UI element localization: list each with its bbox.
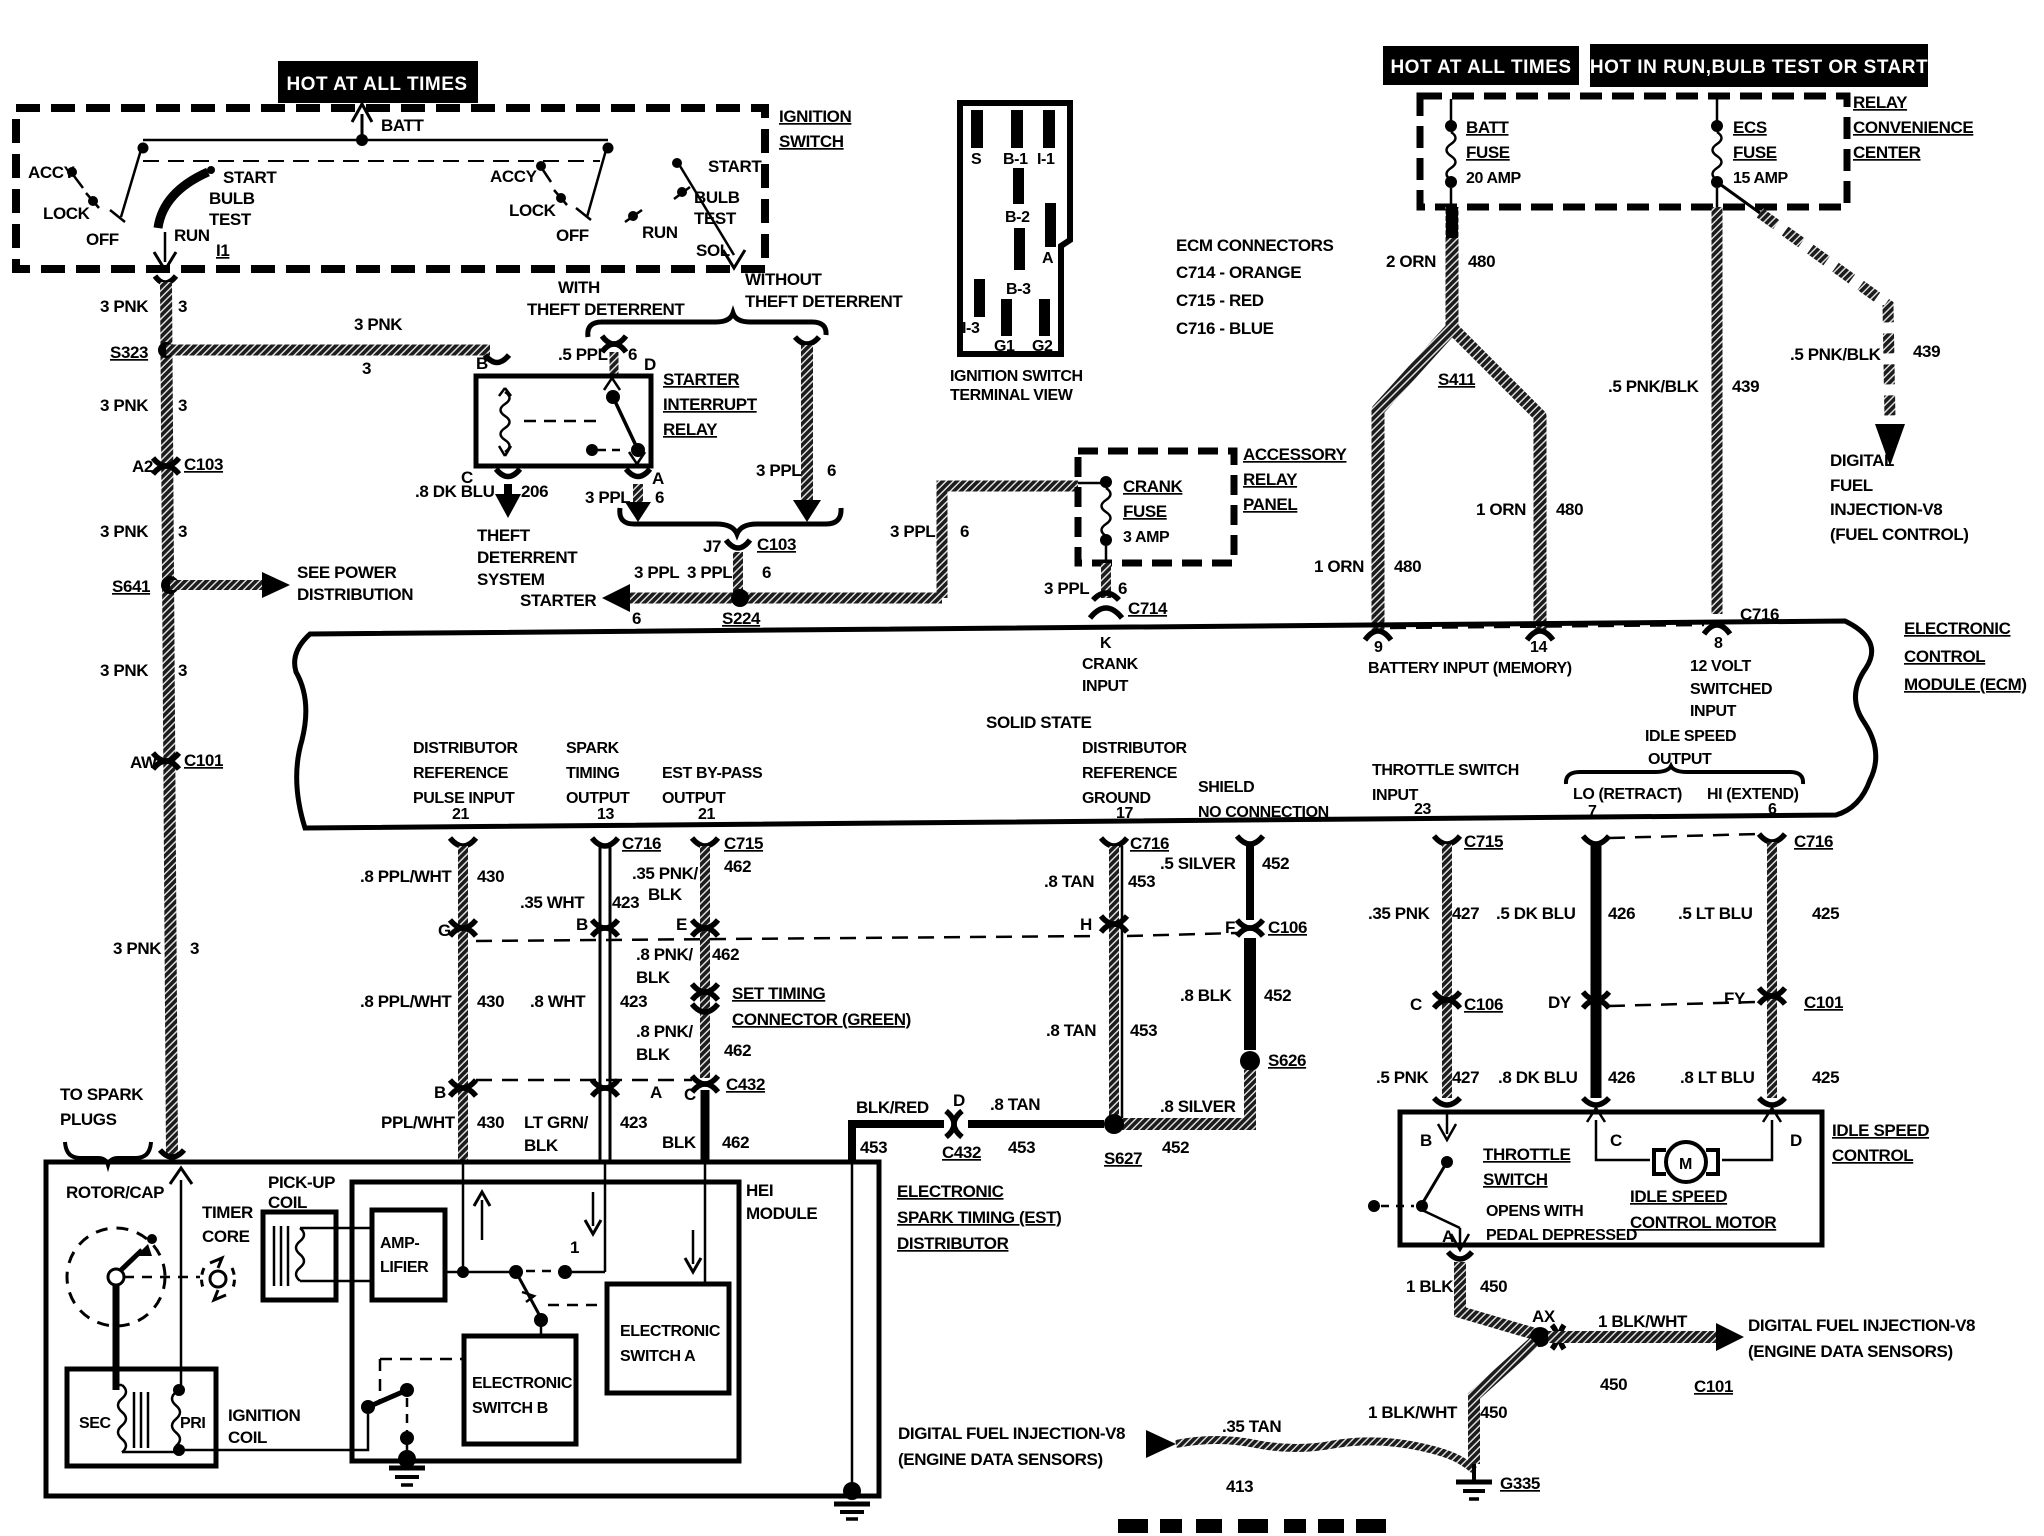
svg-text:S224: S224 <box>722 609 761 628</box>
svg-text:TO SPARK: TO SPARK <box>60 1085 144 1104</box>
connector H <box>1080 915 1127 934</box>
wire label .35 PNK 427 <box>1368 904 1479 923</box>
wire label .5 LT BLU 425 <box>1678 904 1839 923</box>
svg-text:EST BY-PASS: EST BY-PASS <box>662 765 763 782</box>
svg-text:TERMINAL VIEW: TERMINAL VIEW <box>950 387 1074 404</box>
svg-text:3 AMP: 3 AMP <box>1123 529 1170 546</box>
crank fuse <box>1078 476 1184 563</box>
down arrow right in HEI <box>685 1230 701 1272</box>
svg-text:C716: C716 <box>1130 834 1169 853</box>
svg-text:BATT: BATT <box>381 116 424 135</box>
svg-text:SWITCH: SWITCH <box>1483 1170 1548 1189</box>
svg-text:CENTER: CENTER <box>1853 143 1921 162</box>
wire 1 ORN 480 left leg labels <box>1314 557 1421 576</box>
ignition coil box <box>67 1369 216 1466</box>
wire BLK/RED inside distributor to ground <box>851 1162 854 1494</box>
svg-text:.8 PNK/: .8 PNK/ <box>636 1022 693 1041</box>
svg-text:INPUT: INPUT <box>1372 787 1419 804</box>
svg-text:.35 PNK/: .35 PNK/ <box>632 864 698 883</box>
pin 21 EST BY-PASS OUTPUT <box>662 765 763 823</box>
right OFF contact <box>556 208 591 245</box>
ignition switch title <box>779 107 851 151</box>
svg-text:DISTRIBUTOR: DISTRIBUTOR <box>897 1234 1009 1253</box>
svg-text:THROTTLE: THROTTLE <box>1483 1145 1571 1164</box>
svg-text:G2: G2 <box>1032 338 1053 355</box>
pin 23 THROTTLE SWITCH INPUT <box>1372 762 1519 818</box>
svg-text:3: 3 <box>178 297 187 316</box>
svg-text:BLK/RED: BLK/RED <box>856 1098 929 1117</box>
footer plate marks <box>1118 1519 1386 1533</box>
splice AX C101 <box>1530 1307 1733 1396</box>
label bar HOT AT ALL TIMES (left) <box>278 61 478 103</box>
svg-text:CONNECTOR (GREEN): CONNECTOR (GREEN) <box>732 1010 911 1029</box>
svg-text:C432: C432 <box>942 1143 981 1162</box>
svg-text:J7: J7 <box>703 537 721 556</box>
svg-text:IDLE SPEED: IDLE SPEED <box>1832 1121 1929 1140</box>
svg-text:C: C <box>684 1085 696 1104</box>
pivot switch lower left <box>361 1383 414 1458</box>
svg-text:3 PNK: 3 PNK <box>113 939 162 958</box>
svg-text:OFF: OFF <box>556 226 589 245</box>
svg-text:.35 PNK: .35 PNK <box>1368 904 1431 923</box>
svg-text:C716 - BLUE: C716 - BLUE <box>1176 319 1274 338</box>
ECM module outline <box>295 621 1876 828</box>
splice S411 <box>1378 328 1540 632</box>
left LOCK contact <box>43 193 99 223</box>
svg-text:.8 BLK: .8 BLK <box>1180 986 1233 1005</box>
idle speed motor pin D entry <box>1722 1098 1802 1160</box>
svg-text:.5 PNK/BLK: .5 PNK/BLK <box>1790 345 1882 364</box>
svg-text:1: 1 <box>570 1238 579 1257</box>
wire .8 TAN from S627 to D <box>968 1095 1104 1124</box>
connector .5 PPL 6 to relay D <box>558 336 656 376</box>
svg-text:IGNITION: IGNITION <box>228 1406 300 1425</box>
connector D C432 <box>942 1091 981 1162</box>
svg-text:B-1: B-1 <box>1003 151 1028 168</box>
set timing connector (green) <box>692 984 911 1029</box>
svg-text:C101: C101 <box>184 751 223 770</box>
svg-text:IGNITION SWITCH: IGNITION SWITCH <box>950 368 1083 385</box>
wire .35 TAN 413 from engine data sensors <box>898 1417 1474 1496</box>
svg-text:C103: C103 <box>184 455 223 474</box>
svg-text:CONTROL: CONTROL <box>1832 1146 1913 1165</box>
pin 7 connector below ECM <box>1583 836 1609 844</box>
relay coil <box>499 388 511 456</box>
wire label PPL/WHT 430 <box>381 1113 504 1132</box>
left RUN output arrow <box>154 232 176 270</box>
svg-text:DETERRENT: DETERRENT <box>477 548 578 567</box>
svg-text:439: 439 <box>1732 377 1759 396</box>
svg-text:C716: C716 <box>622 834 661 853</box>
svg-text:FUSE: FUSE <box>1733 143 1777 162</box>
connector C716 pin 8 <box>1704 605 1779 634</box>
svg-text:BATT: BATT <box>1466 118 1509 137</box>
label TIMER CORE <box>202 1203 253 1246</box>
amplifier box <box>372 1210 445 1300</box>
svg-text:DISTRIBUTOR: DISTRIBUTOR <box>413 740 518 757</box>
svg-text:BLK: BLK <box>662 1133 697 1152</box>
svg-text:ACCY: ACCY <box>490 167 538 186</box>
svg-text:3 PNK: 3 PNK <box>100 396 149 415</box>
svg-text:S626: S626 <box>1268 1051 1306 1070</box>
svg-text:3: 3 <box>178 661 187 680</box>
svg-text:3: 3 <box>178 396 187 415</box>
pin SHIELD connector below ECM <box>1237 836 1263 844</box>
left OFF contact <box>86 210 125 249</box>
svg-text:G335: G335 <box>1500 1474 1540 1493</box>
svg-text:SWITCH: SWITCH <box>779 132 844 151</box>
svg-text:450: 450 <box>1600 1375 1627 1394</box>
svg-text:COIL: COIL <box>228 1428 267 1447</box>
wire 3 PPL 6 without theft deterrent <box>756 337 836 522</box>
svg-text:OUTPUT: OUTPUT <box>566 790 630 807</box>
throttle switch contacts <box>1368 1156 1469 1250</box>
svg-text:7: 7 <box>1588 803 1597 820</box>
svg-text:C716: C716 <box>1794 832 1833 851</box>
svg-text:2 ORN: 2 ORN <box>1386 252 1436 271</box>
pick-up coil to amplifier wires <box>336 1228 372 1281</box>
svg-text:B: B <box>1420 1131 1432 1150</box>
label WITH THEFT DETERRENT <box>527 278 685 319</box>
svg-text:.8 SILVER: .8 SILVER <box>1160 1097 1236 1116</box>
wire 430 PPL/WHT distributor reference <box>458 846 468 1162</box>
svg-text:OUTPUT: OUTPUT <box>662 790 726 807</box>
svg-text:C715 - RED: C715 - RED <box>1176 291 1264 310</box>
electronic switch B box <box>464 1336 576 1444</box>
wire label .8 PPL/WHT 430 <box>360 867 504 886</box>
svg-text:CONTROL MOTOR: CONTROL MOTOR <box>1630 1213 1776 1232</box>
svg-text:C106: C106 <box>1464 995 1503 1014</box>
node DIGITAL FUEL INJECTION-V8 (ENGINE DATA SENSORS) right <box>1748 1316 1975 1361</box>
svg-text:MODULE (ECM): MODULE (ECM) <box>1904 675 2027 694</box>
svg-text:C714 - ORANGE: C714 - ORANGE <box>1176 263 1301 282</box>
splice S627 <box>1008 1114 1142 1168</box>
svg-text:.5 PNK: .5 PNK <box>1376 1068 1430 1087</box>
svg-text:START: START <box>223 168 277 187</box>
svg-text:C103: C103 <box>757 535 796 554</box>
svg-text:HOT AT ALL TIMES: HOT AT ALL TIMES <box>1390 57 1571 78</box>
svg-text:ECS: ECS <box>1733 118 1767 137</box>
svg-text:AW: AW <box>130 753 158 772</box>
EST distributor outer box <box>46 1162 879 1496</box>
svg-text:20 AMP: 20 AMP <box>1466 170 1522 187</box>
node TO SPARK PLUGS <box>60 1085 151 1165</box>
svg-text:480: 480 <box>1556 500 1583 519</box>
svg-text:1 ORN: 1 ORN <box>1476 500 1526 519</box>
svg-text:D: D <box>1790 1131 1802 1150</box>
svg-text:452: 452 <box>1162 1138 1189 1157</box>
connector C715 est by-pass <box>724 834 763 876</box>
svg-text:AX: AX <box>1532 1307 1556 1326</box>
pin SHIELD NO CONNECTION <box>1198 779 1329 821</box>
svg-text:6: 6 <box>628 345 637 364</box>
wire .5 PNK/BLK 439 from ECS fuse <box>1608 207 1759 614</box>
throttle switch title <box>1483 1145 1637 1244</box>
ignition switch bus wire <box>143 139 608 142</box>
svg-text:TIMER: TIMER <box>202 1203 253 1222</box>
svg-text:ROTOR/CAP: ROTOR/CAP <box>66 1183 164 1202</box>
brace from SOL to theft deterrent paths <box>588 313 826 337</box>
wire pivot to ignition coil <box>216 1414 368 1450</box>
ground G335 <box>1456 1464 1540 1499</box>
svg-text:.8 LT BLU: .8 LT BLU <box>1680 1068 1755 1087</box>
svg-text:SWITCHED: SWITCHED <box>1690 681 1772 698</box>
idle speed control motor <box>1654 1142 1718 1182</box>
svg-text:BULB: BULB <box>694 188 740 207</box>
svg-text:TIMING: TIMING <box>566 765 620 782</box>
pins 7 6 IDLE SPEED OUTPUT <box>1566 728 1803 820</box>
rotor shaft to ignition coil <box>113 1285 120 1390</box>
svg-text:PRI: PRI <box>180 1415 205 1432</box>
svg-text:BLK: BLK <box>636 968 671 987</box>
pin 23 connector below ECM <box>1434 832 1503 851</box>
throttle switch pin B entry <box>1420 1098 1460 1150</box>
svg-text:CRANK: CRANK <box>1082 656 1139 673</box>
wire label 3 PNK 3 <box>100 297 187 316</box>
svg-text:WITHOUT: WITHOUT <box>745 270 823 289</box>
wire C into HEI <box>704 1162 707 1284</box>
splice S224 with starter feed line <box>520 584 942 628</box>
svg-text:ACCY: ACCY <box>28 163 76 182</box>
svg-text:SOLID STATE: SOLID STATE <box>986 713 1092 732</box>
svg-text:PEDAL DEPRESSED: PEDAL DEPRESSED <box>1486 1227 1637 1244</box>
connector B <box>434 1080 476 1102</box>
timer core symbol <box>202 1258 235 1300</box>
svg-text:C432: C432 <box>726 1075 765 1094</box>
svg-text:START: START <box>708 157 762 176</box>
label PICK-UP COIL <box>268 1173 335 1212</box>
relay B pin connector <box>485 355 509 363</box>
svg-text:439: 439 <box>1913 342 1940 361</box>
wire 453 TAN distributor reference ground <box>1114 846 1122 1124</box>
svg-text:IGNITION: IGNITION <box>779 107 851 126</box>
svg-text:C: C <box>1610 1131 1622 1150</box>
svg-text:3 PNK: 3 PNK <box>354 315 403 334</box>
svg-text:426: 426 <box>1608 904 1635 923</box>
svg-text:H: H <box>1080 915 1092 934</box>
svg-text:3 PPL: 3 PPL <box>890 522 935 541</box>
pin 8 12 VOLT SWITCHED INPUT <box>1690 635 1772 720</box>
svg-text:IDLE SPEED: IDLE SPEED <box>1630 1187 1727 1206</box>
svg-text:PPL/WHT: PPL/WHT <box>381 1113 456 1132</box>
svg-text:3 PNK: 3 PNK <box>100 297 149 316</box>
svg-text:.8 PPL/WHT: .8 PPL/WHT <box>360 867 452 886</box>
wire .5 PNK/BLK 439 diagonal branch <box>1717 182 1940 466</box>
svg-text:PANEL: PANEL <box>1243 495 1297 514</box>
svg-text:DIGITAL FUEL INJECTION-V8: DIGITAL FUEL INJECTION-V8 <box>1748 1316 1975 1335</box>
svg-text:(ENGINE DATA SENSORS): (ENGINE DATA SENSORS) <box>1748 1342 1953 1361</box>
electronic switch arm <box>516 1272 607 1336</box>
svg-text:DIGITAL FUEL INJECTION-V8: DIGITAL FUEL INJECTION-V8 <box>898 1424 1125 1443</box>
pin 6 connector below ECM <box>1759 832 1833 851</box>
svg-text:480: 480 <box>1394 557 1421 576</box>
svg-text:6: 6 <box>960 522 969 541</box>
connector C C106 <box>1410 992 1503 1014</box>
svg-text:B: B <box>434 1083 446 1102</box>
svg-text:SYSTEM: SYSTEM <box>477 570 545 589</box>
svg-text:BLK: BLK <box>524 1136 559 1155</box>
svg-text:6: 6 <box>1768 801 1777 818</box>
svg-text:423: 423 <box>620 992 647 1011</box>
svg-text:PICK-UP: PICK-UP <box>268 1173 335 1192</box>
svg-text:WITH: WITH <box>558 278 600 297</box>
svg-text:CORE: CORE <box>202 1227 250 1246</box>
svg-text:3 PNK: 3 PNK <box>100 661 149 680</box>
connector E <box>676 915 718 936</box>
svg-text:DISTRIBUTION: DISTRIBUTION <box>297 585 413 604</box>
svg-text:DY: DY <box>1548 993 1572 1012</box>
svg-text:3 PPL: 3 PPL <box>1044 579 1089 598</box>
svg-text:A: A <box>1042 250 1054 267</box>
svg-text:CONVENIENCE: CONVENIENCE <box>1853 118 1973 137</box>
dashed net on ECM top edge pins 9-14-8 <box>1390 625 1704 628</box>
svg-text:FUSE: FUSE <box>1466 143 1510 162</box>
wire 3 PPL 6 to C714 <box>1044 563 1127 598</box>
svg-text:3 PPL: 3 PPL <box>687 563 732 582</box>
svg-text:427: 427 <box>1452 1068 1479 1087</box>
left START arc contact <box>158 166 277 260</box>
svg-text:(ENGINE DATA SENSORS): (ENGINE DATA SENSORS) <box>898 1450 1103 1469</box>
svg-text:13: 13 <box>597 806 614 823</box>
relay convenience center title <box>1853 93 1973 162</box>
svg-text:OFF: OFF <box>86 230 119 249</box>
wire label 3 PNK 3 <box>100 396 187 415</box>
svg-text:THEFT DETERRENT: THEFT DETERRENT <box>745 292 903 311</box>
connector A2 C103 <box>132 455 223 476</box>
svg-text:1 BLK/WHT: 1 BLK/WHT <box>1598 1312 1688 1331</box>
svg-text:RUN: RUN <box>174 226 210 245</box>
svg-text:HI (EXTEND): HI (EXTEND) <box>1707 786 1799 803</box>
wire BLK 462 to distributor <box>662 1090 749 1162</box>
dashed line G to H <box>476 936 1100 941</box>
svg-text:.8 TAN: .8 TAN <box>1044 872 1094 891</box>
wire 1 BLK/WHT 450 to engine data sensors <box>1548 1312 1744 1351</box>
wire label .8 PNK/BLK 462 <box>636 1022 751 1064</box>
label HEI MODULE <box>746 1181 817 1223</box>
relay switch <box>524 378 645 464</box>
svg-text:462: 462 <box>712 945 739 964</box>
svg-text:S411: S411 <box>1438 370 1475 389</box>
svg-text:I1: I1 <box>216 241 229 260</box>
connector A spark timing <box>592 1080 662 1102</box>
wire label .8 PPL/WHT 430 <box>360 992 504 1011</box>
svg-text:SWITCH A: SWITCH A <box>620 1348 696 1365</box>
svg-text:6: 6 <box>827 461 836 480</box>
connector C714 pin K <box>1090 593 1168 618</box>
svg-text:THEFT DETERRENT: THEFT DETERRENT <box>527 300 685 319</box>
svg-text:THEFT: THEFT <box>477 526 531 545</box>
wire label 3 PNK 3 <box>100 522 187 541</box>
svg-text:INPUT: INPUT <box>1690 703 1737 720</box>
wire label .8 TAN 453 <box>1046 1021 1157 1040</box>
connector AW C101 <box>130 751 223 772</box>
svg-text:450: 450 <box>1480 1403 1507 1422</box>
svg-text:427: 427 <box>1452 904 1479 923</box>
svg-text:OUTPUT: OUTPUT <box>1648 751 1712 768</box>
svg-text:.5 DK BLU: .5 DK BLU <box>1496 904 1576 923</box>
svg-text:3 PPL: 3 PPL <box>634 563 679 582</box>
BATT feed wire <box>352 104 424 146</box>
wire 426 DK BLU idle speed lo <box>1591 844 1602 1098</box>
svg-text:I-1: I-1 <box>1037 151 1055 168</box>
svg-text:PLUGS: PLUGS <box>60 1110 117 1129</box>
svg-text:.5 SILVER: .5 SILVER <box>1160 854 1236 873</box>
svg-text:C: C <box>1410 995 1422 1014</box>
splice S626 <box>1240 1051 1306 1071</box>
ignition coil PRI winding <box>122 1384 216 1456</box>
svg-text:ELECTRONIC: ELECTRONIC <box>1904 619 2011 638</box>
svg-text:.8 DK BLU: .8 DK BLU <box>1498 1068 1578 1087</box>
trunk end connector at distributor <box>160 1150 184 1157</box>
HEI module box <box>352 1182 739 1461</box>
wire 425 LT BLU idle speed hi <box>1767 842 1777 1098</box>
left ACCY contact <box>28 163 83 188</box>
svg-text:I-3: I-3 <box>962 320 980 337</box>
svg-text:453: 453 <box>860 1138 887 1157</box>
wire 1 BLK 450 below throttle switch <box>1406 1252 1535 1334</box>
connector G <box>438 920 476 940</box>
svg-text:SEE POWER: SEE POWER <box>297 563 396 582</box>
svg-text:LT GRN/: LT GRN/ <box>524 1113 589 1132</box>
svg-text:462: 462 <box>724 1041 751 1060</box>
svg-text:M: M <box>1679 1156 1692 1173</box>
idle speed control motor pin C entry <box>1583 1098 1650 1160</box>
svg-text:B: B <box>476 354 488 373</box>
node THEFT DETERRENT SYSTEM <box>477 526 578 589</box>
svg-text:17: 17 <box>1116 805 1133 822</box>
BATT fuse <box>1445 99 1522 207</box>
svg-text:LO (RETRACT): LO (RETRACT) <box>1573 786 1682 803</box>
throttle switch / idle speed control box <box>1400 1112 1822 1245</box>
connector B spark timing <box>576 915 618 936</box>
amplifier output net <box>445 1265 605 1279</box>
svg-text:1 BLK/WHT: 1 BLK/WHT <box>1368 1403 1458 1422</box>
svg-text:430: 430 <box>477 992 504 1011</box>
svg-text:REFERENCE: REFERENCE <box>413 765 509 782</box>
starter interrupt relay title <box>663 370 758 439</box>
label IGNITION COIL <box>228 1406 300 1447</box>
svg-text:SPARK: SPARK <box>566 740 620 757</box>
svg-text:HOT IN RUN,BULB TEST OR START: HOT IN RUN,BULB TEST OR START <box>1590 57 1928 78</box>
svg-text:8: 8 <box>1714 635 1723 652</box>
wire B into HEI <box>462 1162 465 1272</box>
svg-text:453: 453 <box>1128 872 1155 891</box>
svg-text:3 PNK: 3 PNK <box>100 522 149 541</box>
pin 13 connector below ECM <box>592 838 618 846</box>
wire A into HEI <box>604 1162 607 1272</box>
svg-text:(FUEL CONTROL): (FUEL CONTROL) <box>1830 525 1969 544</box>
wire 423 spark timing (double line) <box>600 846 610 1162</box>
svg-text:423: 423 <box>612 893 639 912</box>
svg-text:CRANK: CRANK <box>1123 477 1184 496</box>
dashed control line to switch B <box>380 1359 464 1400</box>
wire 3 PPL 6 rising to crank fuse <box>890 486 1078 598</box>
svg-text:C714: C714 <box>1128 599 1168 618</box>
svg-text:426: 426 <box>1608 1068 1635 1087</box>
wire label .8 LT BLU 425 <box>1680 1068 1839 1087</box>
svg-text:C106: C106 <box>1268 918 1307 937</box>
svg-text:OPENS WITH: OPENS WITH <box>1486 1203 1583 1220</box>
svg-text:ELECTRONIC: ELECTRONIC <box>620 1323 721 1340</box>
ignition coil SEC winding <box>79 1385 148 1453</box>
connector F C106 <box>1225 918 1307 937</box>
svg-text:.35 TAN: .35 TAN <box>1222 1417 1281 1436</box>
dashed line B to C432 <box>476 1079 692 1082</box>
svg-text:INPUT: INPUT <box>1082 678 1129 695</box>
svg-text:STARTER: STARTER <box>663 370 739 389</box>
svg-text:K: K <box>1100 635 1112 652</box>
svg-text:LOCK: LOCK <box>43 204 91 223</box>
